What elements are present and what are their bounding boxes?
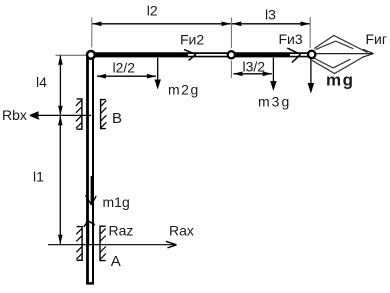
dimension l2/2 line with arrows — [97, 74, 157, 79]
svg-text:Fиг: Fиг — [366, 31, 387, 47]
label m3g — [258, 93, 291, 109]
dimension l3/2 line with arrows — [233, 72, 272, 77]
joint circle middle — [228, 51, 235, 58]
svg-text:l3/2: l3/2 — [243, 58, 266, 74]
support A left bracket with hatching — [76, 227, 82, 261]
dimension l1 line with arrows — [58, 116, 63, 244]
label Rax — [169, 223, 194, 239]
joint circle at corner — [87, 51, 95, 59]
label Raz — [109, 223, 134, 239]
extension line at x=91.8 (top of l2) — [91, 18, 93, 48]
svg-text:l1: l1 — [33, 168, 44, 184]
svg-text:Rax: Rax — [169, 223, 194, 239]
force Fи2 arrow along rod — [96, 50, 196, 61]
label l2/2 — [113, 59, 136, 75]
label A — [111, 253, 121, 270]
svg-text:B: B — [112, 110, 122, 127]
label B — [112, 110, 122, 127]
extension line for l4 (horizontal at corner) — [56, 54, 87, 56]
force Fи3 arrow along rod — [236, 48, 301, 62]
svg-text:A: A — [111, 253, 121, 270]
svg-text:Raz: Raz — [109, 223, 134, 239]
label mg (bold) — [326, 70, 355, 89]
force Rbx arrow (left at B) — [30, 112, 91, 119]
wire: horizontal rod segment — [92, 53, 311, 58]
svg-text:l3: l3 — [265, 7, 276, 23]
label Fи2 — [180, 31, 204, 47]
support B right bracket with hatching — [101, 100, 107, 129]
svg-text:Fи2: Fи2 — [180, 31, 204, 47]
force m2g arrow — [155, 58, 161, 90]
svg-text:mg: mg — [326, 70, 355, 89]
extension line at x=231.4 (l2/l3 junction) — [230, 18, 232, 79]
extension line at x=310.2 (right of l3) — [309, 17, 311, 48]
force Raz arrow (up along rod at A) — [84, 221, 95, 244]
load dart shape (Fиг vector at right end) — [312, 36, 374, 74]
svg-text:l4: l4 — [36, 74, 47, 90]
svg-text:m1g: m1g — [103, 194, 130, 210]
dimension l4 line with arrows — [58, 55, 63, 115]
support A right bracket with hatching — [100, 226, 106, 260]
label Fи3 — [279, 31, 303, 47]
label l1 — [33, 168, 44, 184]
label l3 — [265, 7, 276, 23]
svg-text:l2/2: l2/2 — [113, 59, 136, 75]
label l2 — [147, 3, 158, 19]
svg-text:m2g: m2g — [168, 82, 200, 98]
joint circle right — [308, 51, 315, 58]
svg-text:l2: l2 — [147, 3, 158, 19]
label Rbx — [2, 107, 27, 123]
force m3g arrow — [270, 58, 276, 91]
dimension l2 line with arrows — [92, 22, 231, 27]
axis line at A with Rax arrow — [48, 241, 177, 248]
support B left bracket with hatching — [76, 99, 82, 129]
label m2g — [168, 82, 200, 98]
svg-text:Rbx: Rbx — [2, 107, 27, 123]
label Fиг — [366, 31, 387, 47]
dimension l3 line with arrows — [232, 22, 310, 27]
svg-text:Fи3: Fи3 — [279, 31, 303, 47]
label l4 — [36, 74, 47, 90]
force m1g arrow (on vertical rod) — [86, 176, 97, 205]
svg-text:m3g: m3g — [258, 93, 291, 109]
wire: vertical rod segment — [86, 55, 94, 284]
label l3/2 — [243, 58, 266, 74]
label m1g — [103, 194, 130, 210]
force mg arrow — [308, 59, 315, 94]
